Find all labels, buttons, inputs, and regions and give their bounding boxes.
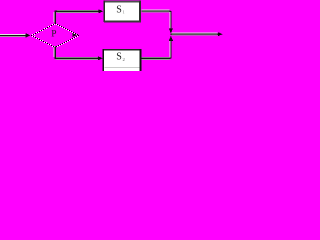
diamond edge BL <box>31 35 56 48</box>
wire: box S2 to merge point (up arrow) <box>141 36 173 59</box>
wire: diamond top to box S1 <box>54 9 103 23</box>
box S1 <box>104 0 141 22</box>
wire: diamond bottom to box S2 <box>54 47 102 61</box>
background <box>0 0 224 71</box>
wire: input arrow into diamond <box>0 33 30 37</box>
wire: box S1 to merge point (down arrow) <box>141 10 173 33</box>
box S2 (cut by bottom edge of image) <box>103 49 142 71</box>
svg-text:S: S <box>116 52 122 63</box>
label S2 <box>116 52 125 63</box>
flowchart: if-P-then-S1-else-S2 diagram on magenta background <box>0 0 224 71</box>
svg-text:S: S <box>116 5 122 16</box>
arrowhead at diamond right vertex <box>72 33 77 37</box>
label S1 <box>116 5 125 16</box>
wire: output arrow from merge point <box>171 32 223 36</box>
diamond edge TR <box>55 23 79 36</box>
diamond edge TL <box>31 23 56 36</box>
diamond edge BR <box>55 35 79 48</box>
svg-text:P: P <box>51 29 56 39</box>
